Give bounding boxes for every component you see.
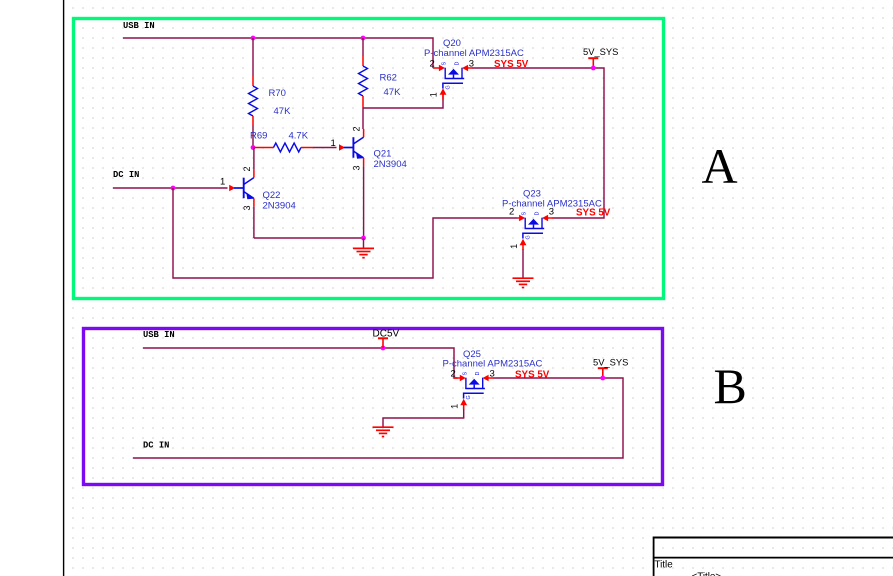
Q25 pin 3 lead <box>483 375 489 382</box>
pin names S D G of Q23 <box>522 212 541 240</box>
Q20 pin 2 lead <box>433 67 440 69</box>
junction R70 / R69 / Q22 collector <box>251 145 256 150</box>
power symbol DC5V (box B) <box>378 338 388 348</box>
junction ground rail / Q21 emitter <box>361 236 366 241</box>
svg-text:4.7K: 4.7K <box>289 131 309 142</box>
svg-text:2N3904: 2N3904 <box>263 201 296 212</box>
svg-text:DC5V: DC5V <box>373 329 400 340</box>
svg-text:47K: 47K <box>384 87 402 98</box>
svg-text:R70: R70 <box>269 88 286 99</box>
svg-text:1: 1 <box>509 244 519 249</box>
ground GND (Q23 gate) <box>513 278 534 287</box>
svg-text:2N3904: 2N3904 <box>374 159 407 170</box>
svg-text:D: D <box>475 372 481 376</box>
resistor R70 47K <box>249 76 258 126</box>
svg-text:D: D <box>455 62 461 66</box>
svg-text:S: S <box>462 372 468 376</box>
wire USB IN to R70.1 <box>252 38 254 76</box>
transistor Q22 (NPN 2N3904) <box>234 169 254 206</box>
Q22 pin 1 arrow <box>229 185 235 192</box>
wire R62/Q21 collector to Q20 gate <box>363 94 443 108</box>
svg-text:5V_SYS: 5V_SYS <box>593 356 628 367</box>
resistor R62 47K <box>359 56 368 108</box>
svg-text:SYS 5V: SYS 5V <box>576 208 611 219</box>
svg-text:Q21: Q21 <box>374 149 392 160</box>
Q23 pin 3 lead <box>542 215 548 222</box>
Q25 gate pin 1 arrow <box>460 399 467 410</box>
pin names S D G of Q25 <box>462 372 481 400</box>
Q25 pin 2 arrow <box>454 377 460 379</box>
Q21 pin 1 arrow <box>339 144 345 151</box>
Q23 pin 2 arrow <box>517 217 520 219</box>
wire to Q21 collector <box>362 108 364 129</box>
svg-text:R69: R69 <box>250 131 267 142</box>
resistor R69 4.7K <box>253 143 313 152</box>
ground GND (box A main) <box>353 248 374 257</box>
junction 5V_SYS tap (box B) <box>600 376 605 381</box>
transistor Q20 (P-channel MOSFET APM2315AC) <box>443 68 464 89</box>
wire ground rail (box A) <box>254 237 364 239</box>
wire DC IN branch to Q23 pin 2 <box>173 188 517 278</box>
wire R69 node to Q22 collector <box>253 148 255 170</box>
wire Q25 pin3 / 5V_SYS / DC IN (box B) <box>133 378 623 458</box>
junction 5V_SYS tap (box A) <box>591 66 596 71</box>
ground GND (box B) <box>373 427 394 436</box>
wire USB IN to R62.1 <box>362 38 364 56</box>
svg-text:2: 2 <box>430 58 435 69</box>
svg-text:G: G <box>445 85 451 89</box>
wire Q21 emitter to ground rail <box>363 166 365 238</box>
wire Q23 gate to ground <box>522 249 524 278</box>
transistor Q25 (P-channel MOSFET APM2315AC) <box>464 378 485 399</box>
highlight box A (green) <box>74 19 664 299</box>
svg-text:DC IN: DC IN <box>113 170 139 180</box>
power symbol 5V_SYS (box A) <box>588 58 598 68</box>
wire Q22 emitter to ground rail <box>253 207 255 238</box>
wire stub to ground A <box>363 238 365 248</box>
svg-text:1: 1 <box>450 404 460 409</box>
svg-text:G: G <box>466 395 472 399</box>
svg-text:D: D <box>535 212 541 216</box>
svg-text:B: B <box>714 358 747 414</box>
Q20 gate pin 1 arrow <box>440 88 447 99</box>
svg-text:2: 2 <box>509 206 514 217</box>
wire R70.2 to R69 node <box>252 126 254 148</box>
title block frame <box>654 537 893 576</box>
svg-text:47K: 47K <box>274 106 292 117</box>
Q20 pin 3 lead <box>462 65 468 72</box>
transistor Q21 (NPN 2N3904) <box>344 129 364 166</box>
svg-text:3: 3 <box>352 165 362 170</box>
svg-text:1: 1 <box>429 92 439 97</box>
svg-text:G: G <box>525 235 531 239</box>
wire DC IN to Q22 base <box>113 187 228 189</box>
svg-text:S: S <box>442 62 448 66</box>
svg-text:DC IN: DC IN <box>143 441 169 451</box>
svg-text:2: 2 <box>352 126 362 131</box>
svg-text:5V_SYS: 5V_SYS <box>583 46 618 57</box>
pin names S D G of Q20 <box>442 62 461 90</box>
svg-text:USB IN: USB IN <box>123 21 155 31</box>
junction DC IN / lower branch <box>171 186 176 191</box>
transistor Q23 (P-channel MOSFET APM2315AC) <box>523 218 544 239</box>
Q23 gate pin 1 arrow <box>520 239 527 250</box>
svg-text:1: 1 <box>331 138 336 149</box>
junction USB IN / R62 <box>361 36 366 41</box>
svg-text:A: A <box>702 138 738 194</box>
svg-text:1: 1 <box>220 177 225 188</box>
svg-text:S: S <box>522 212 528 216</box>
power symbol 5V_SYS (box B) <box>598 368 608 378</box>
svg-text:Title: Title <box>655 560 674 571</box>
wire USB IN to Q25 pin 2 (box B) <box>143 348 458 378</box>
svg-text:3: 3 <box>549 206 554 217</box>
wire USB IN net to Q20 pin 2 <box>123 38 433 68</box>
junction DC5V tap (box B) <box>381 346 386 351</box>
svg-text:2: 2 <box>451 368 456 379</box>
svg-text:USB IN: USB IN <box>143 330 175 340</box>
svg-text:3: 3 <box>242 205 252 210</box>
svg-text:SYS 5V: SYS 5V <box>515 370 550 381</box>
junction USB IN / R70 <box>251 36 256 41</box>
wire Q25 gate to ground (box B) <box>383 409 464 427</box>
wire Q20 pin3 / 5V_SYS / Q23 pin3 <box>473 68 605 218</box>
svg-text:R62: R62 <box>380 73 397 84</box>
svg-text:2: 2 <box>242 166 252 171</box>
svg-text:Q22: Q22 <box>263 190 281 201</box>
wire R69.2 to Q21 base <box>313 147 337 149</box>
svg-text:<Title>: <Title> <box>692 572 722 576</box>
highlight box B (purple) <box>84 329 663 485</box>
